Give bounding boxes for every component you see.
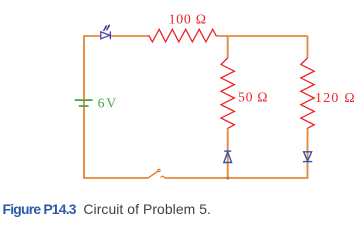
svg-text:100 Ω: 100 Ω — [169, 11, 206, 26]
svg-text:V: V — [106, 96, 116, 111]
svg-text:6: 6 — [98, 96, 105, 111]
svg-text:Figure P14.3: Figure P14.3 — [3, 201, 77, 217]
svg-text:50 Ω: 50 Ω — [238, 90, 268, 105]
svg-text:Circuit of Problem 5.: Circuit of Problem 5. — [83, 201, 210, 217]
svg-text:120 Ω: 120 Ω — [315, 90, 355, 105]
